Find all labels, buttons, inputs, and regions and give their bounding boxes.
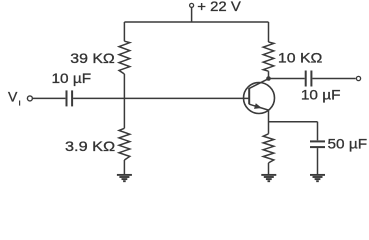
capacitor 50 uF bypass — [310, 141, 325, 147]
transistor Q1 — [244, 79, 275, 114]
wire left column lower (R 3.9K to ground) — [123, 160, 125, 174]
terminal +22V — [190, 3, 194, 7]
junction collector node — [266, 76, 271, 81]
wire left column middle (R 39K to R 3.9K through base node) — [123, 74, 125, 128]
resistor 10 KΩ — [263, 42, 274, 71]
svg-text:+ 22 V: + 22 V — [197, 0, 241, 14]
ground (below 50 uF) — [310, 175, 325, 181]
resistor emitter — [263, 134, 274, 163]
wire C 10uF output to output terminal — [312, 78, 355, 80]
wire collector node to C 10uF output — [269, 78, 305, 80]
wire +22V stem — [191, 7, 193, 22]
wire R 10K to collector node — [268, 71, 270, 78]
wire emitter to branch and R E — [268, 110, 270, 134]
terminal output — [356, 76, 360, 80]
ground (below emitter resistor) — [261, 175, 276, 181]
capacitor 10 uF input — [67, 90, 73, 106]
node Vi label — [8, 89, 20, 106]
wire bypass cap bottom lead — [317, 148, 319, 174]
svg-text:50 µF: 50 µF — [328, 136, 368, 152]
resistor 39 KΩ — [119, 41, 130, 74]
wire top supply rail — [124, 21, 268, 23]
capacitor 10 uF output — [306, 71, 312, 87]
ground (below 3.9 KΩ) — [117, 175, 132, 181]
wire bypass cap top lead — [317, 122, 319, 141]
wire emitter branch to bypass cap — [269, 121, 318, 123]
wire left column upper (rail to R 39K) — [123, 22, 125, 41]
svg-text:3.9 KΩ: 3.9 KΩ — [65, 138, 115, 154]
svg-text:10 µF: 10 µF — [301, 86, 341, 102]
svg-text:10 KΩ: 10 KΩ — [278, 50, 323, 66]
wire right column upper (rail to R 10K) — [268, 22, 270, 42]
svg-text:V: V — [8, 89, 18, 105]
wire input terminal to C 10uF — [33, 97, 66, 99]
terminal input Vi — [27, 96, 32, 101]
svg-text:10 µF: 10 µF — [52, 70, 92, 86]
resistor 3.9 KΩ — [119, 128, 130, 160]
wire base (C 10uF to transistor base) — [73, 97, 249, 99]
wire R E to ground — [268, 163, 270, 174]
svg-text:39 KΩ: 39 KΩ — [70, 50, 115, 66]
